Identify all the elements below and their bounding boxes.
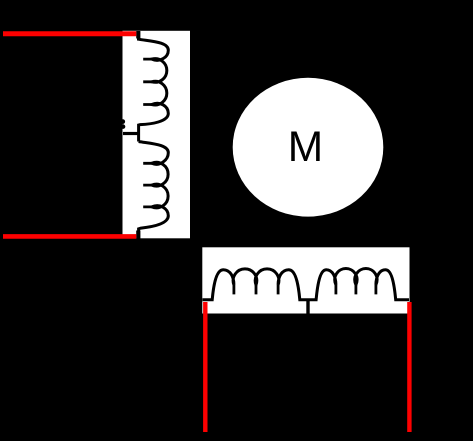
T1 bottom pin stub <box>136 231 140 240</box>
T1 upper winding joint ticks <box>143 59 152 104</box>
wire W4: red output wire right <box>407 302 411 432</box>
wire W1: red supply wire to T1 top <box>3 31 136 36</box>
T2 centre tap pin <box>306 300 309 317</box>
wire W3: red output wire left <box>203 302 207 432</box>
label fragment (clipped text) left of T1 <box>121 119 125 124</box>
transformer T1 body (left white box) <box>123 31 191 239</box>
T1 lower winding joint ticks <box>143 163 152 207</box>
T2 right winding L2b <box>308 269 409 300</box>
motor M1 circle <box>233 78 384 217</box>
T1 upper winding L1a <box>139 31 169 142</box>
T1 centre tap wire <box>123 132 139 135</box>
T2 right winding joint ticks <box>336 285 376 295</box>
T1 top pin stub <box>136 31 140 39</box>
T2 left winding L2a <box>203 269 309 300</box>
transformer T2 body (bottom white box) <box>202 247 409 313</box>
T1 lower winding L1b <box>139 142 169 240</box>
svg-text:M: M <box>288 124 323 171</box>
wire W2: red supply wire to T1 bottom <box>3 234 136 239</box>
T2 left winding joint ticks <box>234 285 278 295</box>
